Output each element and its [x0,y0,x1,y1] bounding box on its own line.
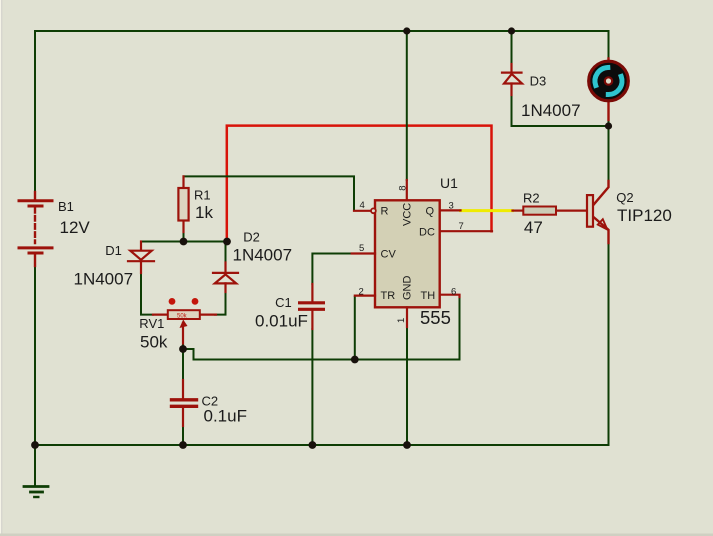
svg-text:R2: R2 [523,191,540,206]
wire D3 top from rail [511,31,513,64]
node R1/D1 [180,238,188,246]
node GND pin/ground rail [403,441,411,449]
motor M (top right) [589,59,629,121]
wire battery bottom to ground rail [34,266,36,445]
svg-text:RV1: RV1 [139,316,164,331]
wire D1 to RV1 left [141,272,153,315]
svg-text:Q2: Q2 [616,190,633,205]
node C2/ground rail [179,441,187,449]
pin 5 stub [352,252,375,254]
diode D2 [213,263,238,293]
wire pin5 CV to C1 [312,254,351,285]
node C1/ground rail [309,441,317,449]
wire ground rail [35,444,609,446]
svg-text:1N4007: 1N4007 [74,270,134,289]
svg-text:4: 4 [360,200,365,211]
battery B1 [19,192,52,266]
pin 7 stub [440,230,492,232]
svg-text:TH: TH [421,290,436,302]
svg-text:D1: D1 [105,243,122,258]
RV1 terminal dot right [192,298,199,305]
svg-text:2: 2 [359,287,364,298]
wire yellow (pin3 Q to R2) [461,209,513,212]
wire C1 bottom to ground rail [311,329,313,445]
svg-text:C1: C1 [275,295,292,310]
svg-text:VCC: VCC [402,203,414,226]
wire RV1 wiper to control net [183,349,460,360]
wire VCC top rail [35,30,609,32]
svg-text:U1: U1 [440,175,458,191]
svg-text:TR: TR [381,290,396,302]
svg-text:47: 47 [524,218,543,237]
svg-text:1k: 1k [195,203,213,222]
wire R1 top to pin4 [184,176,355,209]
node TR tap [351,356,359,364]
capacitor C1 [300,284,324,329]
svg-text:D2: D2 [243,230,260,245]
wire D3 bottom to collector node [512,95,609,126]
wire motor bottom to collector node [608,120,610,126]
svg-text:12V: 12V [60,218,91,237]
svg-text:Q: Q [426,206,435,218]
chip pin numbers [359,186,464,323]
svg-text:0.1uF: 0.1uF [204,407,247,426]
RV1 wiper arrow [182,323,184,346]
wire VCC to pin8 [406,31,408,180]
pin 6 stub [440,295,460,297]
wire motor top from rail [608,31,610,59]
svg-text:7: 7 [459,221,464,232]
svg-text:GND: GND [402,276,414,301]
diode D1 [128,242,154,274]
wire pin6 TH drop [459,296,461,360]
resistor R2 [513,207,588,215]
capacitor C2 [172,380,197,426]
wire R1 bottom stub [183,232,185,242]
op-amp U1 555 timer body [352,180,492,327]
svg-text:1: 1 [396,318,407,323]
wire D2 to RV1 right [215,291,226,315]
pin 8 stub [406,180,408,200]
pin 1 stub [406,307,408,327]
pin 4 stub with reset bubble [354,210,370,212]
pin 2 stub [355,295,375,297]
resistor R1 [178,176,188,232]
svg-text:3: 3 [449,201,454,212]
node D2/discharge [223,238,231,246]
pin 3 stub [440,209,461,211]
node motor/collector [605,122,612,129]
bottom window edge band [0,534,713,536]
wire wiper node to C2 [182,349,184,381]
wire pin2 TR drop [354,297,356,360]
svg-text:R1: R1 [194,188,211,203]
wire node to D2 [225,242,227,264]
svg-text:555: 555 [420,307,451,328]
transistor Q2 [587,181,609,243]
svg-text:R: R [381,206,389,218]
diode D3 [502,64,522,95]
wire node to D1 [140,242,142,246]
wire diode node horizontal [141,241,227,243]
wire battery top [34,31,36,192]
potentiometer RV1 [153,298,216,349]
svg-text:50k: 50k [140,332,168,351]
svg-text:0.01uF: 0.01uF [255,312,308,331]
node VCC/pin8 [403,27,410,34]
svg-text:5: 5 [359,243,364,254]
wire collector node down to Q2 [608,126,610,181]
svg-text:6: 6 [451,287,456,298]
wire ground stub [34,445,36,487]
node wiper/C2 [179,345,187,353]
svg-text:DC: DC [419,227,435,239]
left window edge [0,0,1,536]
wire C2 bottom to ground rail [182,426,184,445]
wire emitter to ground rail [608,243,610,445]
wire red discharge loop (pin7 to diode node) [227,126,492,238]
svg-text:TIP120: TIP120 [617,206,672,225]
svg-text:50k: 50k [177,314,188,320]
svg-text:8: 8 [398,186,409,191]
svg-text:1N4007: 1N4007 [233,246,293,265]
svg-text:1N4007: 1N4007 [521,101,581,120]
svg-text:CV: CV [381,249,397,261]
wire pin1 GND to ground rail [406,327,408,445]
ground [24,487,48,498]
svg-text:B1: B1 [58,199,74,214]
chip pin names [381,203,436,302]
RV1 terminal dot left [169,298,176,305]
svg-text:D3: D3 [530,74,547,89]
node VCC/D3 [508,27,515,34]
node battery/ground rail [31,441,39,449]
